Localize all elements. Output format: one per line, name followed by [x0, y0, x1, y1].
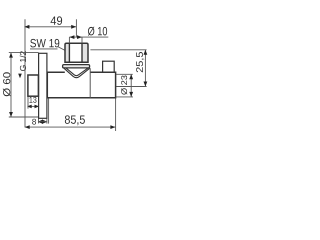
dim 25,5 — [144, 50, 146, 87]
label 49 — [51, 16, 63, 25]
rosette (escutcheon) — [39, 53, 47, 118]
knob (hex head SW19) — [65, 43, 88, 62]
bonnet flange shading — [63, 65, 90, 68]
dim Ø23 — [130, 74, 132, 97]
ext segments below thread — [27, 96, 29, 108]
cone inner — [66, 68, 88, 75]
label Ø60 rotated — [3, 72, 11, 96]
dim Ø10 line + leader to text — [69, 36, 108, 38]
knob side panel shading left — [65, 43, 69, 62]
wall thread G1/2 — [28, 75, 39, 96]
G1/2 arrow down — [18, 74, 22, 79]
body section edge — [89, 68, 91, 98]
ext line axis top — [75, 19, 77, 37]
label SW 19 + leader — [30, 39, 59, 48]
dim 13 — [31, 105, 36, 107]
label Ø10 — [88, 27, 107, 36]
knob side panel shading right — [82, 43, 88, 62]
dim 49: dimension line — [24, 26, 76, 28]
knob bottom line — [65, 61, 88, 63]
dim 85,5 — [25, 126, 116, 128]
hex facet left / stem ext — [68, 37, 70, 43]
label Ø23 rotated — [121, 76, 127, 95]
dim 49 right arrow — [71, 25, 76, 29]
dim Ø60 — [10, 53, 12, 117]
label 85,5 — [65, 115, 85, 125]
hex facet right / stem ext — [81, 37, 83, 43]
right ext below body — [115, 98, 117, 131]
ext line left (shared 49 / 85,5) — [24, 19, 26, 127]
Ø10 left arrow — [69, 35, 74, 39]
label 13 — [29, 97, 36, 103]
Ø10 right arrow — [77, 35, 82, 39]
cone outer — [64, 68, 90, 77]
dim 8 — [38, 120, 43, 124]
dim 49 left arrow — [24, 25, 29, 29]
bonnet flange — [63, 65, 90, 68]
label 8 — [32, 119, 36, 125]
valve body outline — [47, 72, 115, 98]
outlet box on body — [103, 61, 115, 72]
technical drawing: angle valve with dimensions — [0, 0, 150, 150]
ext segments for 8 dim — [46, 118, 48, 123]
label 25,5 rotated — [136, 52, 144, 72]
label G 1/2 rotated + leader arrow — [20, 51, 26, 71]
